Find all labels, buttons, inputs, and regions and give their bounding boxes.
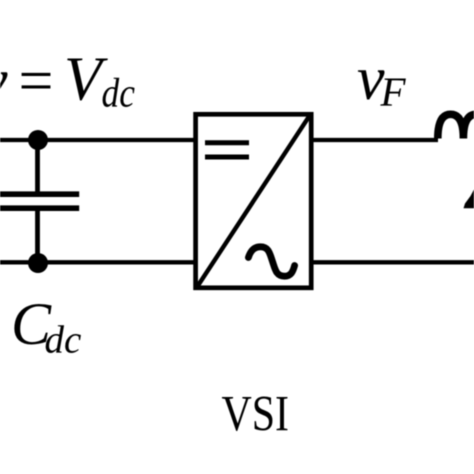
capacitor C_dc bottom plate [0,205,79,211]
inductor L_F coil [438,114,474,138]
svg-text:F: F [380,69,407,115]
svg-text:=: = [19,47,54,115]
svg-text:v: v [0,47,8,115]
wire bottom AC return [309,260,474,264]
inverter box U1 (VSI) [196,114,312,287]
capacitor C_dc top plate [0,191,79,197]
svg-text:dc: dc [102,70,135,116]
wire bottom DC bus left [0,260,198,264]
node dot top DC bus [28,130,48,150]
svg-text:VSI: VSI [222,387,290,443]
AC symbol (sine) inside inverter [248,247,294,276]
capacitor C_dc lead bottom [35,211,40,263]
svg-text:dc: dc [45,319,82,362]
wire top AC output [309,138,438,142]
inverter diagonal divider [198,117,309,286]
wire top DC bus left [0,138,198,142]
node dot bottom DC bus [28,253,48,273]
DC symbol (=) inside inverter [205,140,249,145]
label L (partial, cut at right edge) [464,190,474,209]
capacitor C_dc lead top [35,140,40,192]
